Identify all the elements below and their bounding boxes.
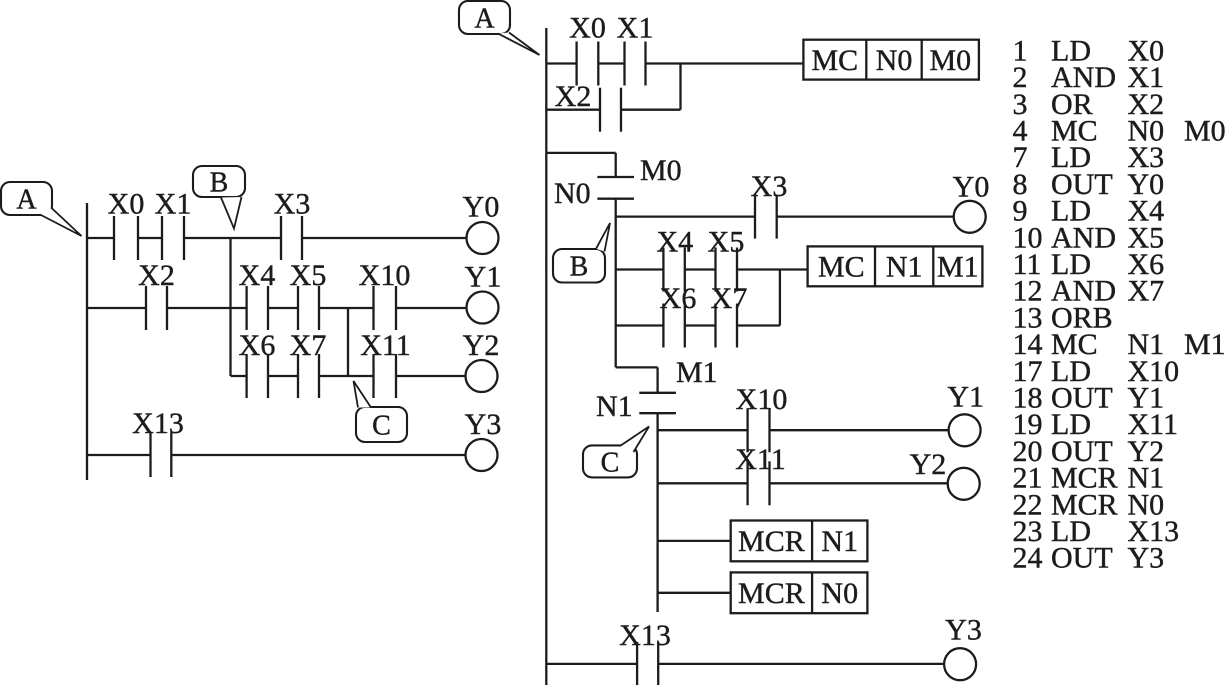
svg-text:X2: X2 <box>138 259 175 292</box>
svg-text:X3: X3 <box>274 188 311 221</box>
svg-text:X13: X13 <box>619 619 671 652</box>
svg-text:X4: X4 <box>656 226 693 259</box>
svg-text:MCR: MCR <box>738 577 805 610</box>
svg-text:X11: X11 <box>735 443 786 476</box>
svg-text:X6: X6 <box>239 329 276 362</box>
svg-text:MC: MC <box>812 44 859 77</box>
svg-text:X1: X1 <box>155 188 192 221</box>
svg-text:M0: M0 <box>929 44 971 77</box>
svg-text:Y3: Y3 <box>945 614 982 647</box>
svg-text:OUT: OUT <box>1051 542 1113 575</box>
svg-text:Y3: Y3 <box>465 408 502 441</box>
svg-text:N1: N1 <box>886 251 923 284</box>
svg-text:X1: X1 <box>617 12 654 45</box>
svg-text:Y2: Y2 <box>463 329 500 362</box>
svg-text:Y3: Y3 <box>1128 542 1165 575</box>
svg-text:X7: X7 <box>290 329 327 362</box>
svg-text:X0: X0 <box>108 188 145 221</box>
svg-text:A: A <box>16 184 37 215</box>
svg-text:M1: M1 <box>676 356 718 389</box>
svg-text:24: 24 <box>1013 542 1043 575</box>
svg-text:Y2: Y2 <box>910 448 947 481</box>
svg-text:B: B <box>570 252 589 283</box>
svg-text:X7: X7 <box>711 282 748 315</box>
svg-text:B: B <box>210 167 229 198</box>
svg-text:A: A <box>474 3 495 34</box>
svg-text:X13: X13 <box>132 407 184 440</box>
svg-text:M1: M1 <box>1184 328 1226 361</box>
svg-text:C: C <box>601 447 620 478</box>
svg-text:M1: M1 <box>937 251 979 284</box>
svg-text:X7: X7 <box>1128 275 1165 308</box>
svg-text:Y1: Y1 <box>947 381 984 414</box>
svg-text:C: C <box>372 410 391 441</box>
svg-text:Y0: Y0 <box>953 171 990 204</box>
svg-text:X10: X10 <box>736 383 788 416</box>
svg-text:N1: N1 <box>596 390 633 423</box>
svg-text:X11: X11 <box>360 329 411 362</box>
svg-text:X5: X5 <box>708 226 745 259</box>
svg-text:N0: N0 <box>876 44 913 77</box>
svg-text:X5: X5 <box>290 259 327 292</box>
svg-text:M0: M0 <box>640 154 682 187</box>
svg-text:MC: MC <box>818 251 865 284</box>
svg-text:X2: X2 <box>555 80 592 113</box>
svg-text:X6: X6 <box>660 282 697 315</box>
svg-text:M0: M0 <box>1184 115 1226 148</box>
svg-text:N1: N1 <box>821 525 858 558</box>
svg-text:N0: N0 <box>554 177 591 210</box>
svg-text:X4: X4 <box>239 259 276 292</box>
svg-text:Y0: Y0 <box>463 191 500 224</box>
svg-text:X10: X10 <box>359 259 411 292</box>
svg-text:Y1: Y1 <box>465 261 502 294</box>
svg-text:X3: X3 <box>751 170 788 203</box>
svg-text:MCR: MCR <box>738 525 805 558</box>
svg-text:N0: N0 <box>821 577 858 610</box>
svg-text:X0: X0 <box>569 12 606 45</box>
